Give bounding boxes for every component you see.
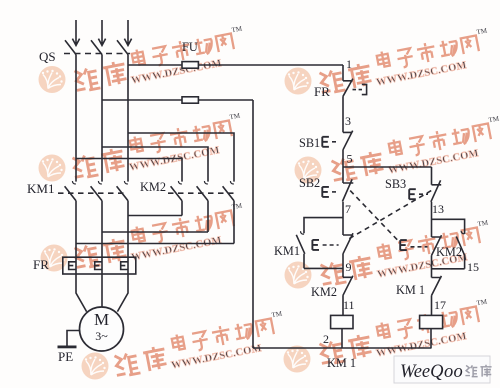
contactor KM1 main contact 2 <box>91 181 102 307</box>
actuator E right <box>400 240 427 250</box>
actuator E left <box>312 240 338 250</box>
svg-text:FR: FR <box>314 84 330 99</box>
wire: phase L1 incoming with arrow <box>72 20 79 45</box>
button contact SB2-linked (NC) in right branch <box>432 235 442 277</box>
wire: coil KM2 to rail <box>430 329 432 348</box>
fuse FU1 <box>182 62 198 69</box>
wire: KM1 holding branch top <box>304 218 343 234</box>
thermal relay FR heaters box <box>63 257 136 274</box>
svg-text:13: 13 <box>432 202 444 216</box>
coil KM2 <box>420 315 443 328</box>
wire: coil KM1 to rail (node 2) <box>341 329 343 348</box>
wire: node 1 drop <box>342 65 344 81</box>
svg-text:KM2: KM2 <box>140 180 166 194</box>
svg-text:KM1: KM1 <box>27 181 54 196</box>
button SB1 stop (NC) <box>343 131 353 167</box>
wire: KM2 out1 to motor line3 <box>128 215 182 217</box>
wire: L2 tap to control return <box>102 99 253 101</box>
motor M 3~ <box>80 307 124 351</box>
button SB3 start-rev (NO) <box>431 167 441 202</box>
svg-text:FU: FU <box>182 40 198 54</box>
SB3 actuator <box>409 189 428 199</box>
SB2 actuator <box>322 187 339 197</box>
contactor contact KM2 interlock (NC) <box>343 276 353 316</box>
svg-text:KM 1: KM 1 <box>327 356 356 370</box>
wire: L3 QS to KM1 <box>127 55 129 182</box>
wire: motor to PE <box>67 331 80 346</box>
wire: node 7 segment <box>342 202 344 235</box>
button contact SB3-linked (NC) in left branch <box>343 233 353 277</box>
wire: KM2 out3 to motor line1 <box>76 243 234 245</box>
svg-text:11: 11 <box>343 298 355 312</box>
FR actuator dashed link <box>353 84 367 94</box>
svg-text:7: 7 <box>345 202 351 216</box>
ground PE <box>58 346 77 349</box>
fuse FU2 <box>182 97 198 103</box>
svg-text:o: o <box>454 362 463 382</box>
svg-text:1: 1 <box>346 57 352 71</box>
svg-text:M: M <box>94 310 109 329</box>
svg-text:FR: FR <box>33 257 49 272</box>
svg-text:2: 2 <box>323 332 329 346</box>
svg-text:WeeQ: WeeQ <box>400 362 444 382</box>
contactor KM1 main contact 3 <box>117 181 128 312</box>
contactor contact KM1 interlock (NC) <box>432 276 442 316</box>
wire: node 5 rail <box>343 166 432 168</box>
svg-text:3~: 3~ <box>95 329 108 343</box>
svg-text:KM2: KM2 <box>311 285 337 299</box>
svg-text:KM2: KM2 <box>436 245 462 259</box>
contactor KM2 main contact 3 <box>223 181 234 244</box>
SB3 interlock diagonal to left branch <box>347 191 432 241</box>
KM1 linkage dashed <box>58 192 128 194</box>
wire: phase L2 incoming with arrow <box>98 20 105 45</box>
wire: KM2 out2 to motor line2 <box>102 231 208 233</box>
SB1 actuator <box>322 137 338 147</box>
wire: KM2 holding branch top <box>432 219 465 234</box>
contactor contact KM2 holding (NO) <box>456 231 464 269</box>
svg-text:QS: QS <box>39 49 56 64</box>
relay contact FR (NC) <box>343 79 353 133</box>
svg-text:SB1: SB1 <box>299 136 320 150</box>
svg-text:17: 17 <box>434 298 446 312</box>
wire: KM2 feed tap phase L3 <box>128 133 234 182</box>
WeeQoo watermark box <box>394 356 492 383</box>
contactor contact KM1 holding (NO) <box>296 231 305 268</box>
svg-text:9: 9 <box>346 260 352 274</box>
SB2 interlock diagonal to right branch <box>350 191 398 242</box>
svg-text:PE: PE <box>58 349 73 364</box>
contactor KM1 main contact 1 <box>65 181 87 312</box>
svg-text:5: 5 <box>347 152 353 166</box>
wire: phase L3 incoming with arrow <box>124 20 131 45</box>
wire: L2 QS to KM1 <box>101 55 103 182</box>
wire: KM2 holding branch bottom <box>432 268 465 270</box>
contactor KM2 main contact 1 <box>171 181 182 216</box>
contactor KM2 main contact 2 <box>197 181 208 232</box>
wire: node 13 segment <box>431 202 433 237</box>
wire: KM2 feed tap phase L1 <box>76 159 182 182</box>
wire: control return drop <box>252 100 254 348</box>
svg-text:KM 1: KM 1 <box>396 283 425 297</box>
button SB2 start-fwd (NO) <box>342 167 353 202</box>
wire: KM1 holding branch bottom <box>304 267 343 269</box>
svg-text:SB2: SB2 <box>299 176 320 190</box>
wire: bottom control rail <box>253 347 432 349</box>
svg-text:15: 15 <box>467 260 479 274</box>
KM2 linkage dashed <box>168 192 237 194</box>
svg-text:3: 3 <box>345 114 351 128</box>
svg-text:KM1: KM1 <box>274 244 300 258</box>
wire: KM2 feed tap phase L2 <box>102 147 208 182</box>
wire: L1 QS to KM1 <box>75 55 77 182</box>
coil KM1 <box>331 315 353 328</box>
svg-text:o: o <box>444 362 453 382</box>
svg-text:SB3: SB3 <box>385 177 406 191</box>
wire: L3 tap to control (node 1 feed) <box>128 64 343 66</box>
disconnect switch QS <box>64 40 130 54</box>
